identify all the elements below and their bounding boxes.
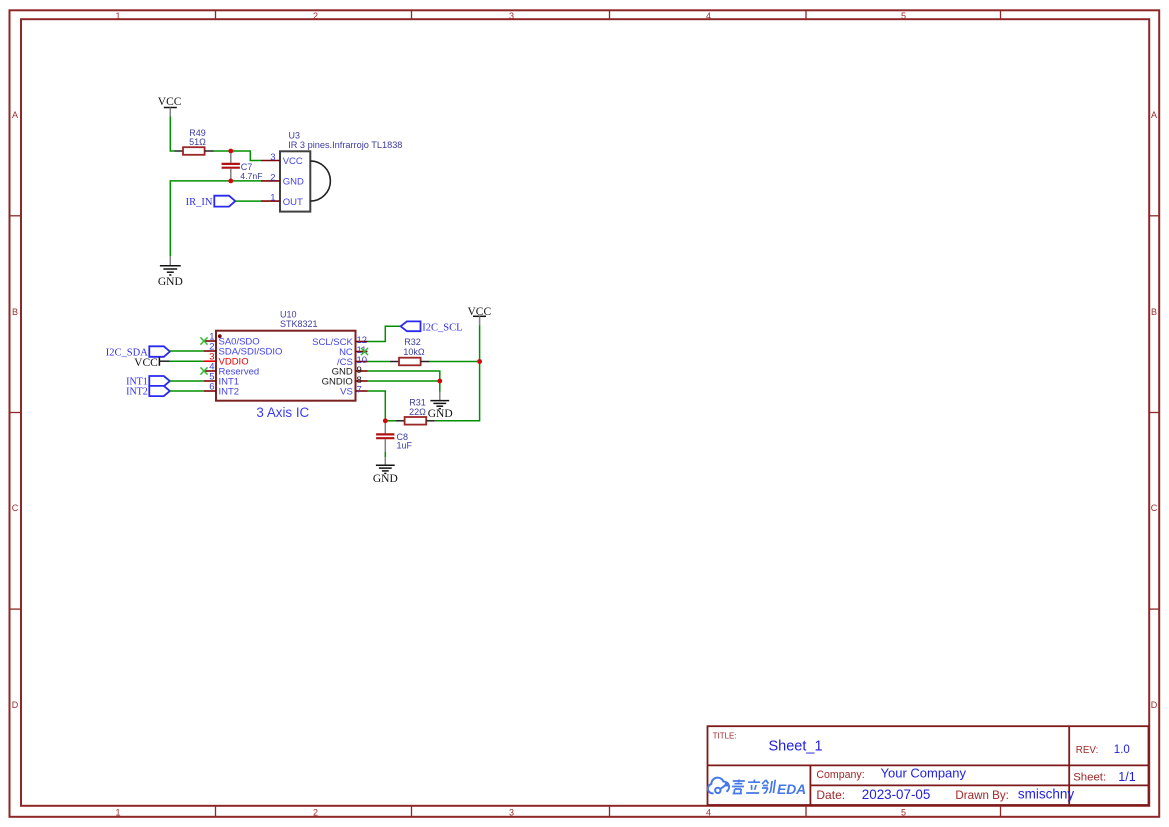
svg-text:B: B bbox=[12, 307, 18, 317]
svg-text:Drawn By:: Drawn By: bbox=[955, 789, 1008, 802]
wire GND net horizontal to U3 pin 2 bbox=[170, 181, 261, 257]
frame column labels top bbox=[115, 11, 906, 21]
svg-text:IR 3 pines.Infrarrojo TL1838: IR 3 pines.Infrarrojo TL1838 bbox=[288, 140, 402, 150]
label C8 value 1uF bbox=[397, 432, 413, 450]
svg-text:R32: R32 bbox=[404, 337, 421, 347]
svg-text:U3: U3 bbox=[289, 131, 301, 141]
svg-text:VS: VS bbox=[340, 387, 353, 398]
U10 pin 12 SCL/SCK bbox=[312, 335, 367, 348]
svg-text:A: A bbox=[12, 110, 18, 120]
capacitor C8 bbox=[376, 423, 394, 452]
svg-text:VCC: VCC bbox=[158, 96, 182, 108]
wire U10 pin 7 VS down bbox=[368, 391, 386, 421]
logo JLC EDA text bbox=[731, 780, 775, 794]
wire VCC rail vertical bbox=[435, 325, 480, 421]
wire VCC to U10 pin 3 bbox=[170, 360, 205, 362]
svg-text:4.7nF: 4.7nF bbox=[240, 171, 262, 181]
svg-text:1: 1 bbox=[270, 193, 275, 204]
port I2C_SCL bbox=[401, 321, 463, 333]
capacitor C7 bbox=[222, 153, 240, 179]
svg-text:3 Axis IC: 3 Axis IC bbox=[256, 405, 309, 420]
svg-text:GND: GND bbox=[283, 177, 304, 188]
svg-text:REV:: REV: bbox=[1076, 745, 1099, 756]
svg-text:TITLE:: TITLE: bbox=[713, 731, 737, 740]
wire VS node to R31 bbox=[385, 420, 395, 422]
frame column labels bottom bbox=[115, 807, 906, 817]
svg-text:Sheet:: Sheet: bbox=[1073, 772, 1106, 784]
svg-text:5: 5 bbox=[901, 11, 906, 21]
wire R49 to junction bbox=[214, 150, 231, 152]
U10 pin 9 GND bbox=[332, 365, 368, 378]
U10 pin 5 INT1 bbox=[204, 372, 239, 388]
port I2C_SDA bbox=[106, 346, 170, 358]
svg-text:A: A bbox=[1151, 110, 1157, 120]
U3 pin 3 VCC bbox=[261, 152, 303, 167]
U10 pin 3 VDDIO bbox=[204, 352, 249, 368]
wire U10 pin 12 to I2C_SCL bbox=[368, 326, 401, 341]
wire C8 to GND bbox=[384, 452, 386, 457]
junction R32/VCC rail bbox=[477, 359, 482, 364]
svg-text:3: 3 bbox=[509, 11, 514, 21]
svg-text:Sheet_1: Sheet_1 bbox=[769, 738, 823, 754]
junction at C7/GND wire bbox=[228, 179, 233, 184]
svg-text:EDA: EDA bbox=[777, 782, 806, 797]
svg-text:VCC: VCC bbox=[283, 156, 303, 167]
wire U10 pin 8 to ground rail bbox=[368, 380, 440, 382]
svg-text:2: 2 bbox=[313, 11, 318, 21]
U3 pin 2 GND bbox=[261, 172, 304, 187]
svg-text:INT2: INT2 bbox=[126, 386, 148, 397]
U10 pin 6 INT2 bbox=[204, 382, 239, 398]
U3 pin 1 OUT bbox=[261, 193, 303, 208]
power flag VCC (top-left) bbox=[158, 96, 182, 117]
no-connect cross pin 1 bbox=[200, 337, 207, 344]
frame row labels right bbox=[1151, 110, 1158, 710]
U10 pin 1 SA0/SDO bbox=[204, 332, 260, 348]
IC U10 STK8321 bbox=[216, 331, 356, 401]
resistor R49 bbox=[175, 147, 214, 155]
svg-text:5: 5 bbox=[901, 807, 906, 817]
svg-text:1: 1 bbox=[115, 11, 120, 21]
label C7 value 4.7nF bbox=[240, 162, 262, 181]
wire INT2 to U10 pin 6 bbox=[170, 390, 204, 392]
label U3 name bbox=[288, 131, 402, 151]
svg-text:22Ω: 22Ω bbox=[409, 407, 426, 417]
IC U3 IR receiver TL1838 bbox=[280, 151, 330, 211]
svg-text:D: D bbox=[1151, 700, 1158, 710]
U10 pin 4 Reserved bbox=[204, 362, 259, 378]
ground GND (below C8) bbox=[373, 457, 398, 485]
svg-text:STK8321: STK8321 bbox=[280, 319, 318, 329]
port IR_IN bbox=[186, 196, 236, 208]
frame column ticks bottom bbox=[216, 806, 1001, 817]
svg-text:1/1: 1/1 bbox=[1118, 770, 1135, 784]
power flag VCC (left, to VDDIO) bbox=[134, 357, 169, 369]
svg-text:2023-07-05: 2023-07-05 bbox=[862, 787, 931, 802]
frame row ticks right bbox=[1149, 216, 1159, 609]
svg-text:Company:: Company: bbox=[816, 769, 864, 781]
svg-text:6: 6 bbox=[209, 382, 214, 393]
wire ground rail down bbox=[439, 381, 441, 392]
junction pin8/ground rail bbox=[437, 379, 442, 384]
U10 pin 7 VS bbox=[340, 385, 367, 398]
svg-text:7: 7 bbox=[357, 385, 362, 396]
label R49 value 51ohm bbox=[189, 128, 206, 147]
svg-text:Date:: Date: bbox=[816, 788, 845, 802]
svg-text:I2C_SCL: I2C_SCL bbox=[422, 322, 462, 333]
svg-text:Your Company: Your Company bbox=[881, 766, 967, 781]
U10 pin 2 SDA/SDI/SDIO bbox=[204, 342, 282, 358]
svg-text:R31: R31 bbox=[409, 397, 426, 407]
wire U10 pin 10 to R32 bbox=[368, 361, 391, 363]
no-connect cross pin 4 bbox=[200, 367, 207, 374]
svg-text:U10: U10 bbox=[280, 310, 297, 320]
svg-text:VCC: VCC bbox=[134, 357, 158, 369]
label U10 name bbox=[280, 310, 318, 330]
title block bbox=[708, 726, 1149, 805]
wire IR_IN to U3 pin 1 bbox=[235, 200, 261, 202]
svg-text:GND: GND bbox=[373, 473, 398, 485]
port INT1 bbox=[126, 376, 170, 387]
svg-text:3: 3 bbox=[270, 152, 275, 163]
port INT2 bbox=[126, 386, 170, 397]
wire R32 to VCC rail bbox=[430, 361, 480, 363]
frame row labels left bbox=[12, 110, 19, 710]
svg-text:10kΩ: 10kΩ bbox=[403, 347, 425, 357]
U10 pin 10 /CS bbox=[337, 355, 368, 368]
title block texts bbox=[713, 731, 1136, 802]
svg-text:4: 4 bbox=[706, 11, 711, 21]
wire I2C_SDA to U10 pin 2 bbox=[170, 350, 204, 352]
svg-text:2: 2 bbox=[313, 807, 318, 817]
logo JLC EDA cloud icon bbox=[708, 778, 729, 794]
junction VS node bbox=[383, 418, 388, 423]
svg-text:1: 1 bbox=[115, 807, 120, 817]
svg-text:C: C bbox=[1151, 503, 1158, 513]
wire U10 pin 9 to ground rail bbox=[368, 371, 440, 381]
svg-text:2: 2 bbox=[270, 172, 275, 183]
frame column ticks top bbox=[216, 10, 1001, 19]
wire INT1 to U10 pin 5 bbox=[170, 380, 204, 382]
svg-text:GND: GND bbox=[158, 276, 183, 288]
svg-text:4: 4 bbox=[706, 807, 711, 817]
label R32 value 10kohm bbox=[403, 337, 425, 357]
svg-text:smischny: smischny bbox=[1018, 787, 1075, 802]
U10 pin 11 NC bbox=[339, 345, 367, 358]
svg-text:OUT: OUT bbox=[283, 197, 303, 208]
U10 pin 8 GNDIO bbox=[322, 375, 368, 388]
svg-text:GND: GND bbox=[428, 408, 453, 420]
no-connect cross pin 11 bbox=[361, 348, 368, 355]
svg-text:B: B bbox=[1151, 307, 1157, 317]
svg-text:51Ω: 51Ω bbox=[189, 137, 206, 147]
resistor R31 bbox=[396, 417, 435, 425]
frame row ticks left bbox=[10, 216, 22, 609]
svg-text:3: 3 bbox=[509, 807, 514, 817]
label R31 value 22ohm bbox=[409, 397, 426, 417]
resistor R32 bbox=[390, 358, 430, 366]
wire VCC down to R49 bbox=[170, 117, 174, 152]
wire junction to U3 pin 3 bbox=[231, 151, 261, 161]
ground GND (top-left) bbox=[158, 256, 183, 288]
svg-text:1.0: 1.0 bbox=[1114, 744, 1130, 756]
ground GND (U10 right) bbox=[428, 392, 453, 421]
svg-text:1uF: 1uF bbox=[397, 440, 413, 450]
svg-text:D: D bbox=[12, 700, 19, 710]
svg-text:IR_IN: IR_IN bbox=[186, 197, 213, 208]
svg-text:C: C bbox=[12, 503, 19, 513]
power flag VCC (right) bbox=[467, 306, 491, 326]
junction at R49/C7 bbox=[228, 149, 233, 154]
svg-text:INT2: INT2 bbox=[219, 387, 240, 398]
